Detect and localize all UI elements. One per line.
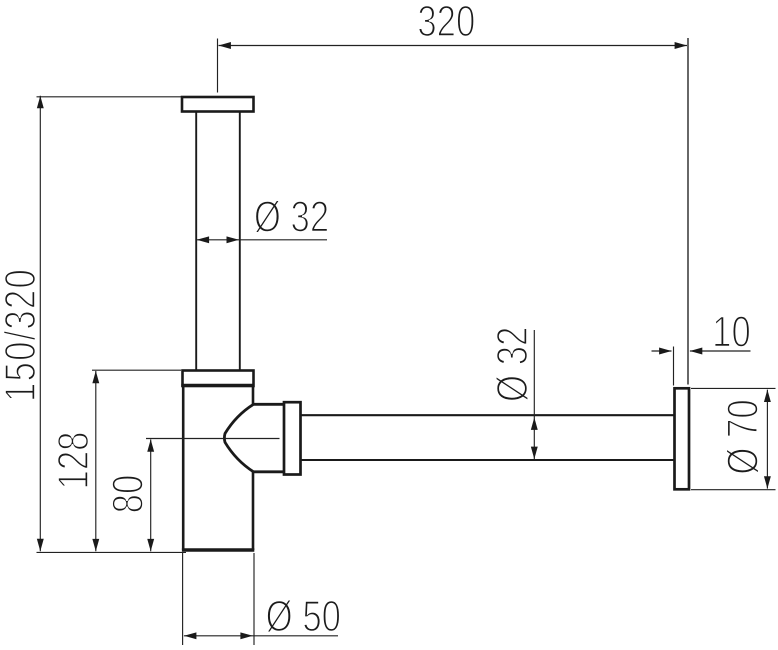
dim 128 line	[95, 371, 97, 551]
horizontal outlet pipe top wall	[301, 414, 675, 416]
dim 70 line	[766, 390, 768, 489]
vertical inlet pipe right wall	[239, 112, 241, 371]
svg-text:128: 128	[49, 432, 98, 490]
arrow 150/320 bottom	[37, 539, 44, 551]
arrow 10 left pointing right	[659, 348, 671, 355]
dim 80 line	[150, 439, 152, 551]
collar bottom thick edge	[181, 384, 254, 387]
arrow 80 top	[147, 439, 154, 451]
centerline extension for dim 80	[146, 438, 280, 440]
dim 70 bottom extension	[691, 489, 776, 491]
svg-text:Ø 32: Ø 32	[488, 327, 537, 402]
dim 50 right extension	[253, 553, 255, 645]
arrow hpipe-32 down	[531, 447, 538, 459]
horizontal outlet pipe bottom wall	[301, 459, 675, 461]
trap body cup	[183, 386, 253, 550]
dim hpipe-32 line	[533, 330, 535, 459]
top flange of vertical inlet pipe	[182, 97, 254, 112]
svg-text:Ø 70: Ø 70	[719, 399, 768, 474]
dim 10 right tail	[690, 350, 751, 352]
dim 150/320 line	[39, 96, 41, 552]
arrow 80 bottom	[147, 539, 154, 551]
arrow 128 top	[92, 371, 99, 383]
dim 320 line	[219, 45, 688, 47]
svg-text:Ø 32: Ø 32	[254, 193, 329, 242]
arrow hpipe-32 up	[531, 418, 538, 430]
svg-text:80: 80	[103, 475, 152, 514]
dim 50 left extension	[182, 553, 184, 645]
svg-text:10: 10	[712, 308, 751, 357]
vertical inlet pipe left wall	[195, 112, 197, 371]
dim 128 top extension	[92, 369, 181, 371]
trap body collar nut	[183, 371, 254, 387]
outlet nut ring flange	[284, 402, 301, 474]
arrow 70 up	[764, 390, 771, 402]
arrow pipe-32 right	[227, 236, 239, 243]
dim pipe-32 line	[197, 239, 327, 241]
arrow 128 bottom	[92, 539, 99, 551]
dim 50 line	[184, 635, 338, 637]
arrow pipe-32 left	[197, 236, 209, 243]
arrow 50 right	[240, 632, 252, 639]
svg-text:150/320: 150/320	[0, 268, 45, 402]
dim 10 left extension	[673, 347, 675, 386]
wall escutcheon flange	[675, 388, 690, 489]
dim 150/320 top extension	[37, 96, 182, 98]
svg-text:Ø 50: Ø 50	[266, 592, 341, 641]
arrow 150/320 top	[37, 96, 44, 108]
dim 10 left tail	[652, 350, 672, 352]
dim 320 right extension (long, down to wall flange)	[687, 38, 689, 385]
arrow 50 left	[184, 632, 196, 639]
arrow 320 right	[675, 42, 687, 49]
dim 320 left extension	[217, 39, 219, 93]
trap body bottom edge	[182, 548, 254, 551]
outlet cone nut	[224, 404, 284, 472]
svg-text:320: 320	[417, 0, 475, 46]
arrow 70 down	[764, 476, 771, 488]
bottom shared extension line	[37, 551, 187, 553]
arrow 10 right pointing left	[690, 348, 702, 355]
arrow 320 left	[219, 42, 231, 49]
dim 70 top extension	[691, 387, 776, 389]
